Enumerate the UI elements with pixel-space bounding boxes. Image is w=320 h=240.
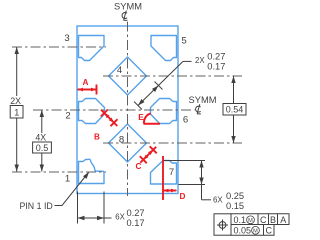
svg-text:8: 8 (119, 135, 124, 146)
red radius detail E (144, 114, 161, 124)
row centerline pins 3 (12, 46, 106, 48)
svg-text:0.25: 0.25 (226, 191, 244, 201)
dimension 6X 0.25/0.15 (corner pad height) (163, 160, 205, 162)
svg-text:A: A (83, 78, 89, 87)
svg-text:2X: 2X (195, 56, 205, 65)
svg-text:0.15: 0.15 (226, 201, 244, 211)
dimension 2X 1 (left, pin row 3 to pin row 1) (16, 47, 18, 96)
row centerline pins 2-6 (horizontal symmetry axis) (33, 109, 195, 111)
svg-text:C: C (136, 162, 142, 171)
svg-text:PIN 1 ID: PIN 1 ID (20, 201, 53, 211)
svg-text:6: 6 (183, 115, 188, 126)
pad 8 (bottom center diamond pad) (109, 124, 147, 162)
svg-text:E: E (138, 113, 144, 122)
svg-text:1: 1 (65, 174, 70, 185)
package outline (77, 26, 178, 194)
svg-text:0.1: 0.1 (234, 215, 247, 225)
position symbol (217, 220, 228, 231)
svg-text:0.54: 0.54 (226, 105, 244, 115)
svg-text:0.05: 0.05 (234, 225, 252, 235)
pad 1 (bottom-left corner pad with pin-1 notch) (79, 159, 105, 183)
svg-text:4: 4 (117, 65, 123, 76)
pad 2 (left middle pad) (79, 99, 105, 124)
svg-text:SYMM: SYMM (114, 1, 142, 11)
red dimension A (78, 89, 97, 91)
svg-text:2X: 2X (10, 96, 21, 106)
svg-text:3: 3 (64, 33, 69, 44)
pad 7 (bottom-right corner pad) (151, 161, 177, 185)
svg-text:SYMM: SYMM (189, 95, 217, 105)
pad 4 (top center diamond pad) (109, 57, 147, 95)
row centerline diamond pad 4 (103, 75, 242, 77)
pad 6 (right middle pad) (151, 99, 177, 124)
row centerline pin 1 (12, 171, 106, 173)
svg-text:B: B (94, 133, 100, 142)
svg-text:0.5: 0.5 (36, 143, 49, 153)
svg-text:5: 5 (181, 36, 186, 47)
dimension 4X 0.5 (left, pin row 2 to pin row 1) (41, 110, 43, 133)
svg-text:4X: 4X (35, 133, 46, 143)
red dimension C (140, 156, 147, 163)
red dimension D (162, 156, 164, 200)
svg-text:1: 1 (14, 107, 19, 117)
svg-text:C: C (260, 215, 267, 225)
pad 5 (top-right corner pad) (151, 36, 177, 61)
dimension 0.54 (between diamond rows) (233, 76, 235, 143)
red dimension B (101, 110, 108, 117)
GD&T feature control frame (214, 214, 289, 235)
svg-text:M: M (253, 228, 258, 234)
svg-text:0.17: 0.17 (127, 218, 145, 228)
svg-text:2: 2 (65, 111, 70, 122)
svg-text:0.27: 0.27 (127, 208, 145, 218)
svg-text:6X: 6X (213, 195, 223, 204)
dimension 6X 0.27/0.17 (bottom pad width) (77, 192, 79, 224)
centerline symbol right (196, 104, 201, 114)
pad 3 (top-left corner pad) (79, 36, 105, 61)
svg-text:0.27: 0.27 (207, 51, 225, 61)
dimension 2X 0.27/0.17 (diamond pad width, diagonal) (155, 82, 163, 90)
centerline symbol top (122, 11, 127, 21)
svg-text:M: M (248, 218, 253, 224)
svg-text:A: A (280, 215, 286, 225)
svg-text:C: C (265, 225, 272, 235)
vertical symmetry centerline (127, 22, 129, 197)
row centerline diamond pad 8 (103, 142, 242, 144)
svg-text:0.17: 0.17 (207, 62, 225, 72)
svg-text:6X: 6X (115, 213, 125, 222)
svg-text:7: 7 (169, 167, 174, 178)
svg-text:D: D (180, 192, 186, 201)
svg-text:B: B (270, 215, 276, 225)
